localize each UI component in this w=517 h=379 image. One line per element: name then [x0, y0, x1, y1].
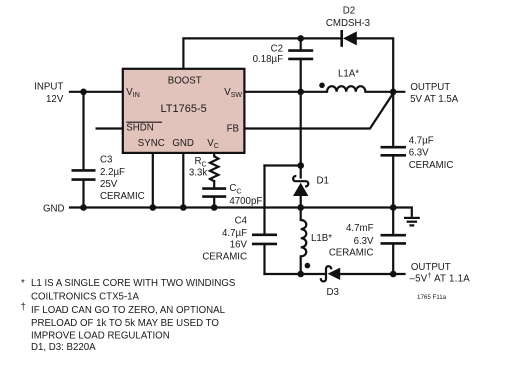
wire SYNC to rail: [152, 153, 154, 208]
svg-text:16V: 16V: [230, 239, 248, 250]
capacitor CC: [202, 189, 226, 197]
inductor L1B: [301, 220, 307, 256]
wire ground rail: [70, 206, 412, 208]
wire output cap bottom: [392, 157, 394, 208]
node top C2 junction: [297, 35, 304, 42]
wire C4 bottom: [263, 245, 265, 274]
svg-text:L1 IS A SINGLE CORE WITH TWO W: L1 IS A SINGLE CORE WITH TWO WINDINGS: [31, 278, 236, 289]
wire L1A to output node: [365, 91, 404, 93]
capacitor C2: [288, 51, 313, 59]
wire C4 top: [263, 166, 265, 234]
diode D2: [342, 30, 357, 47]
svg-text:GND: GND: [172, 138, 194, 149]
svg-text:3.3k: 3.3k: [189, 167, 207, 178]
diode D3 (schottky): [321, 266, 340, 281]
diode D1 (schottky): [293, 176, 308, 196]
node bottom negative output: [390, 271, 397, 278]
node rail CC: [211, 204, 218, 211]
svg-text:6.3V: 6.3V: [409, 148, 429, 159]
capacitor C3: [72, 170, 96, 179]
IC U1 LT1765-5 regulator block: [123, 69, 245, 153]
node rail output cap: [390, 204, 397, 211]
wire D1 anode to rail: [300, 196, 302, 208]
svg-text:IF LOAD CAN GO TO ZERO, AN OPT: IF LOAD CAN GO TO ZERO, AN OPTIONAL: [31, 305, 226, 316]
svg-text:COILTRONICS CTX5-1A: COILTRONICS CTX5-1A: [31, 292, 140, 303]
node output junction: [390, 89, 397, 96]
svg-text:L1A*: L1A*: [338, 68, 359, 79]
wire negative cap bottom: [392, 245, 394, 274]
svg-text:D1: D1: [317, 175, 329, 186]
node rail SYNC: [150, 204, 157, 211]
node input junction: [80, 89, 87, 96]
svg-text:SYNC: SYNC: [138, 138, 165, 149]
node D1 cathode junction: [297, 162, 304, 169]
wire CC to rail: [213, 198, 215, 208]
svg-text:1765 F11a: 1765 F11a: [417, 294, 447, 301]
wire C2 down through VSW node to D1 node: [300, 60, 302, 165]
svg-text:4.7µF: 4.7µF: [409, 136, 434, 147]
svg-text:D1, D3: B220A: D1, D3: B220A: [31, 342, 96, 353]
wire L1B bottom: [300, 256, 302, 274]
wire RC to CC: [213, 181, 215, 187]
wire negative cap top: [392, 208, 394, 235]
capacitor C4: [252, 235, 277, 244]
wire output cap top: [392, 92, 394, 146]
svg-text:GND: GND: [43, 203, 65, 214]
svg-text:4.7µF: 4.7µF: [222, 228, 247, 239]
svg-text:0.18µF: 0.18µF: [253, 54, 283, 65]
svg-text:CERAMIC: CERAMIC: [100, 191, 145, 202]
svg-text:FB: FB: [227, 124, 239, 135]
wire node to C4 branch: [265, 164, 301, 166]
capacitor negative 4.7mF: [381, 235, 407, 243]
svg-text:2.2µF: 2.2µF: [100, 167, 125, 178]
svg-text:*: *: [21, 278, 25, 289]
svg-text:CERAMIC: CERAMIC: [202, 251, 247, 262]
node rail C3: [80, 204, 87, 211]
svg-text:D2: D2: [343, 6, 355, 17]
wire BOOST riser and top wire to D2: [183, 38, 340, 68]
svg-text:4.7mF: 4.7mF: [346, 223, 374, 234]
svg-text:OUTPUT: OUTPUT: [411, 262, 451, 273]
svg-text:PRELOAD OF 1k TO 5k MAY BE USE: PRELOAD OF 1k TO 5k MAY BE USED TO: [31, 318, 219, 329]
capacitor output 4.7uF: [381, 147, 407, 155]
inductor L1A: [327, 86, 365, 92]
wire L1B top: [300, 208, 302, 221]
wire FB with diagonal to output node: [244, 94, 392, 128]
svg-text:–5V† AT 1.1A: –5V† AT 1.1A: [410, 273, 471, 284]
ground symbol: [404, 208, 420, 226]
wire GND pin to rail: [182, 153, 184, 208]
wire D3 to negative output: [340, 273, 404, 275]
svg-text:CMDSH-3: CMDSH-3: [326, 18, 370, 29]
svg-text:IMPROVE LOAD REGULATION: IMPROVE LOAD REGULATION: [31, 331, 170, 342]
svg-text:CERAMIC: CERAMIC: [329, 248, 374, 259]
node rail D1: [297, 204, 304, 211]
wire input stub: [70, 91, 123, 93]
wire D2 to output corner: [357, 38, 393, 91]
svg-text:6.3V: 6.3V: [354, 236, 374, 247]
wire VC pin to RC: [213, 153, 215, 156]
svg-text:SHDN: SHDN: [126, 123, 153, 134]
svg-text:12V: 12V: [46, 94, 64, 105]
node bottom L1B: [297, 271, 304, 278]
svg-text:CERAMIC: CERAMIC: [409, 160, 454, 171]
wire D1 node to D1 cathode: [300, 166, 302, 178]
svg-text:5V AT 1.5A: 5V AT 1.5A: [410, 94, 459, 105]
svg-text:INPUT: INPUT: [34, 82, 63, 93]
svg-text:D3: D3: [327, 287, 339, 298]
inductor L1A phase dot: [319, 83, 325, 89]
wire C3 to gnd rail: [82, 181, 84, 208]
svg-text:25V: 25V: [100, 179, 118, 190]
wire input to C3: [82, 92, 84, 169]
svg-text:L1B*: L1B*: [311, 233, 332, 244]
wire SHDN stub: [97, 127, 123, 129]
wire bottom line C4 to D3: [265, 273, 326, 275]
wire top node to C2: [300, 38, 302, 49]
svg-text:C4: C4: [235, 216, 248, 227]
svg-text:BOOST: BOOST: [168, 75, 202, 86]
svg-text:C3: C3: [100, 155, 112, 166]
svg-text:4700pF: 4700pF: [229, 196, 262, 207]
inductor L1B phase dot: [305, 263, 311, 269]
svg-text:†: †: [21, 302, 26, 313]
wire VSW to L1A: [244, 91, 327, 93]
svg-text:C2: C2: [271, 44, 283, 55]
svg-text:OUTPUT: OUTPUT: [410, 82, 450, 93]
node rail GND: [180, 204, 187, 211]
svg-text:LT1765-5: LT1765-5: [160, 103, 206, 115]
node VSW junction: [297, 89, 304, 96]
resistor RC: [210, 156, 218, 181]
